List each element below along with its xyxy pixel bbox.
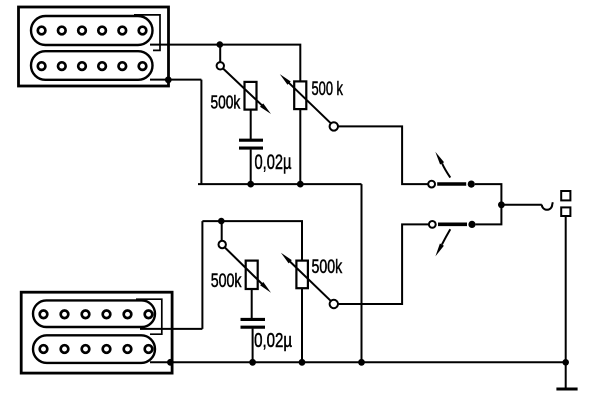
switch S1 pole 2 input contact (429, 221, 436, 228)
junction dot on P1 frame ground lead (165, 76, 172, 83)
wire S1 pole 1 to output node (475, 184, 502, 205)
junction dot R4 on bottom rail (299, 359, 306, 366)
switch S1 pole 1 input contact (428, 181, 435, 188)
bottom ground rail (150, 361, 566, 363)
switch S1 pole 1 output contact (468, 181, 475, 188)
wire R2 bottom to top rail (299, 109, 301, 184)
node B junction dot (218, 218, 225, 225)
svg-text:500k: 500k (211, 271, 242, 292)
wire P1 ground lead (150, 79, 201, 81)
junction dot rail jog on bottom rail (358, 359, 365, 366)
svg-text:500k: 500k (312, 256, 343, 278)
wire node B to volume pot R4 top (202, 221, 302, 261)
wire C2 to bottom rail (252, 329, 254, 363)
jack J1 sleeve terminal square (561, 207, 570, 216)
pickup P1 (neck humbucker) outer frame (19, 7, 169, 86)
pickup P2 coil lead wrap (136, 299, 162, 334)
wire R1 to capacitor C1 (250, 110, 252, 139)
capacitor C2 0.02u (241, 319, 266, 327)
wire jack sleeve to ground (565, 216, 567, 389)
wire P2 hot lead (140, 328, 202, 330)
pickup P1 bottom coil (31, 51, 153, 80)
wire C1 to top rail (250, 150, 252, 185)
junction dot R2 on top rail (297, 181, 304, 188)
jack J1 tip terminal square (561, 191, 570, 200)
pickup P2 bottom coil (33, 335, 155, 363)
potentiometer R4 500k arrow (281, 253, 331, 301)
potentiometer R1 500k body (245, 82, 257, 110)
wire rail jog down (361, 184, 363, 362)
svg-text:500 k: 500 k (312, 78, 344, 100)
potentiometer R3 500k tone arrow (225, 248, 271, 293)
svg-text:500k: 500k (211, 92, 241, 113)
potentiometer R4 500k volume body (296, 261, 308, 289)
junction dot on P2 frame ground lead (167, 359, 174, 366)
solder lug circle R4 wiper (330, 300, 338, 308)
wire node B stub down to tone lug (221, 221, 223, 241)
wire R4 bottom to bottom rail (301, 288, 303, 362)
pickup P2 top coil (33, 300, 155, 327)
svg-text:0,02µ: 0,02µ (255, 151, 292, 174)
wire node A to volume pot R2 top (220, 45, 300, 82)
wire R4 wiper to switch contact 2 (338, 224, 429, 304)
junction dot C1 on top rail (247, 181, 254, 188)
switch S1 actuation arrow upper (435, 152, 450, 178)
switch S1 pole 2 output contact (468, 221, 475, 228)
solder lug circle R2 wiper (330, 122, 338, 130)
ground symbol (556, 388, 577, 391)
potentiometer R1 500k tone arrow (223, 69, 271, 114)
pickup P2 bottom coil pole pieces (40, 345, 153, 353)
pickup P1 bottom coil pole pieces (38, 62, 147, 70)
solder lug circle tone pot R3 (219, 241, 226, 248)
switch S1 actuation arrow lower (435, 229, 450, 256)
wire S1 pole 2 to output node (476, 205, 502, 225)
pickup P1 top coil pole pieces (38, 27, 147, 35)
switch S1 pole 2 blade (438, 223, 467, 227)
top ground rail (198, 183, 362, 185)
capacitor C1 0.02u (239, 140, 263, 148)
wire output node to jack J1 (501, 204, 541, 206)
potentiometer R3 500k body (246, 261, 258, 289)
potentiometer R2 500k volume body (294, 81, 306, 109)
node A junction dot (217, 41, 224, 48)
junction dot bottom rail at ground wire (562, 359, 569, 366)
pickup P1 top coil (31, 16, 153, 45)
junction dot C2 on bottom rail (249, 359, 256, 366)
jack J1 tip contact hook (542, 202, 553, 210)
wire R2 wiper to switch contact 1 (338, 126, 428, 184)
wire P1 hot lead to node A (150, 44, 220, 46)
solder lug circle tone pot R1 (217, 62, 224, 69)
switch S1 pole 1 blade (437, 182, 466, 186)
pickup P2 top coil pole pieces (40, 311, 153, 319)
wire node A stub down to tone lug (219, 45, 221, 62)
wire R3 to capacitor C2 (251, 289, 253, 318)
output node junction dot (498, 201, 505, 208)
pickup P2 (bridge humbucker) outer frame (21, 292, 172, 373)
wire left vertical P1 ground down to top rail (200, 80, 202, 185)
wire P2 hot lead up to node B (201, 221, 203, 329)
potentiometer R2 500k arrow (280, 74, 331, 123)
svg-text:0,02µ: 0,02µ (254, 330, 292, 352)
pickup P1 coil lead wrap (134, 15, 160, 51)
